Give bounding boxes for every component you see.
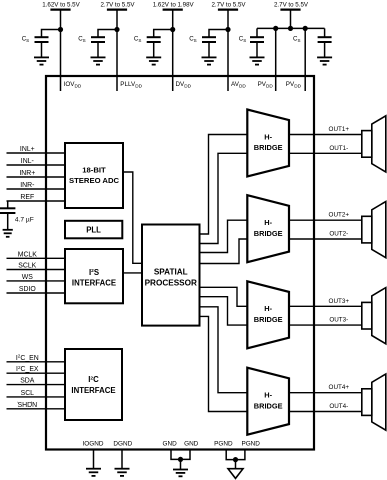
- svg-text:AVDD: AVDD: [231, 81, 246, 89]
- block: PLL: [65, 221, 122, 239]
- wire SCLK input: [7, 269, 66, 271]
- wire I2C_EN input: [7, 361, 66, 363]
- svg-text:GND: GND: [184, 441, 199, 448]
- svg-text:SHDN: SHDN: [18, 402, 38, 409]
- node label SDA: [20, 378, 35, 385]
- junction node GND: [178, 457, 183, 462]
- wire OUT1+: [289, 134, 362, 136]
- junction node supply 1: [58, 27, 63, 32]
- CS value label 1: [22, 36, 29, 44]
- svg-text:GND: GND: [162, 441, 177, 448]
- supply terminal 2.7V to 5.5V (group 2): [100, 2, 135, 10]
- CS value label 4: [189, 36, 196, 44]
- svg-text:STEREO ADC: STEREO ADC: [69, 176, 120, 185]
- junction node supply 4: [225, 27, 230, 32]
- svg-text:CS: CS: [134, 36, 141, 44]
- speaker 4: [362, 374, 386, 430]
- wire OUT4+: [289, 392, 362, 394]
- node label SHDN: [18, 402, 38, 409]
- wire OUT1-: [289, 152, 362, 154]
- svg-text:OUT4+: OUT4+: [329, 384, 350, 391]
- speaker 3: [362, 288, 386, 344]
- wire SCL input: [7, 396, 66, 398]
- node label INL+: [20, 146, 35, 153]
- ground (PGND, power ground triangle): [228, 469, 243, 479]
- svg-text:OUT3+: OUT3+: [329, 298, 350, 305]
- svg-text:2.7V to 5.5V: 2.7V to 5.5V: [100, 2, 135, 9]
- svg-text:OUT2+: OUT2+: [329, 212, 350, 219]
- svg-text:PGND: PGND: [214, 441, 233, 448]
- wire spatial processor to H-bridge 4 IN+: [200, 307, 248, 393]
- svg-text:PLL: PLL: [86, 226, 101, 235]
- wire to bypass capacitor 2: [98, 30, 117, 38]
- pin label IOVDD: [64, 81, 82, 89]
- svg-text:SCLK: SCLK: [18, 263, 36, 270]
- CS value label (PVDD left): [239, 36, 246, 44]
- ground (REF cap): [3, 230, 13, 237]
- svg-text:INL+: INL+: [20, 146, 35, 153]
- wire OUT3+: [289, 305, 362, 307]
- pin label PVDD (2): [286, 81, 302, 89]
- svg-text:BRIDGE: BRIDGE: [254, 315, 283, 324]
- capacitor CS (PVDD bypass left): [250, 28, 264, 57]
- svg-text:SPATIAL: SPATIAL: [154, 268, 188, 277]
- svg-text:BRIDGE: BRIDGE: [254, 401, 283, 410]
- ground (bypass cap 4): [202, 57, 217, 64]
- junction node PGND: [233, 457, 238, 462]
- node label MCLK: [18, 251, 38, 258]
- svg-text:CS: CS: [293, 36, 300, 44]
- wire supply 2 vertical to pin PLLVDD: [116, 10, 118, 91]
- svg-text:INTERFACE: INTERFACE: [71, 386, 115, 395]
- wire OUT4-: [289, 411, 362, 413]
- svg-text:OUT1-: OUT1-: [329, 145, 348, 152]
- wire spatial processor to H-bridge 2 IN-: [200, 239, 248, 264]
- pin label PLLVDD: [120, 81, 142, 89]
- svg-text:PLLVDD: PLLVDD: [120, 81, 142, 89]
- value label 4.7 uF: [15, 216, 34, 223]
- wire SHDN input: [7, 408, 66, 410]
- pin label PVDD (1): [258, 81, 274, 89]
- net label OUT4+: [329, 384, 350, 391]
- net label OUT2+: [329, 212, 350, 219]
- node label INL-: [21, 158, 34, 165]
- svg-text:INR-: INR-: [20, 182, 34, 189]
- pin label DVDD: [176, 81, 192, 89]
- wire I2C_EX input: [7, 372, 66, 374]
- svg-text:INL-: INL-: [21, 158, 34, 165]
- ground (bypass cap 3): [146, 57, 161, 64]
- ground (bypass cap 2): [91, 57, 106, 64]
- amplifier block H-BRIDGE 4: [247, 368, 289, 435]
- svg-text:DGND: DGND: [113, 441, 132, 448]
- svg-text:I2C_EX: I2C_EX: [16, 365, 39, 373]
- wire REF input: [7, 200, 66, 202]
- ground (DGND): [115, 469, 130, 476]
- wire INR+ input: [7, 176, 66, 178]
- supply terminal 2.7V to 5.5V (PVDD group): [274, 2, 309, 10]
- svg-text:I2C_EN: I2C_EN: [16, 354, 39, 362]
- node label REF: [20, 194, 34, 201]
- supply terminal 1.62V to 5.5V (group 1): [42, 2, 80, 10]
- CS value label 3: [134, 36, 141, 44]
- svg-text:DVDD: DVDD: [176, 81, 192, 89]
- capacitor CS (bypass 1): [35, 37, 49, 57]
- wire OUT3-: [289, 324, 362, 326]
- net label OUT2-: [329, 231, 348, 238]
- amplifier block H-BRIDGE 3: [247, 281, 289, 348]
- svg-text:CS: CS: [239, 36, 246, 44]
- svg-text:H-: H-: [264, 132, 272, 141]
- block: I2C INTERFACE: [65, 349, 122, 420]
- block: I2S INTERFACE: [65, 249, 123, 303]
- wire PVDD supply vertical: [290, 10, 292, 29]
- svg-text:PVDD: PVDD: [258, 81, 274, 89]
- wire to bypass capacitor 3: [154, 30, 173, 38]
- svg-text:SDIO: SDIO: [19, 286, 36, 293]
- supply terminal 1.62V to 1.98V (group 3): [153, 2, 195, 10]
- svg-text:CS: CS: [78, 36, 85, 44]
- wire spatial processor to H-bridge 1 IN-: [200, 153, 248, 243]
- capacitor CS (bypass 3): [147, 37, 161, 57]
- pin label AVDD: [231, 81, 246, 89]
- svg-text:WS: WS: [22, 274, 34, 281]
- wire PVDD pin 2: [304, 28, 306, 91]
- node label WS: [22, 274, 34, 281]
- pin DGND: [113, 441, 132, 469]
- wire ADC output to spatial processor: [123, 172, 142, 263]
- wire INL- input: [7, 164, 66, 166]
- svg-text:1.62V to 1.98V: 1.62V to 1.98V: [153, 2, 195, 9]
- node label INR+: [19, 170, 35, 177]
- pin GND pair: [162, 441, 198, 470]
- svg-text:CS: CS: [22, 36, 29, 44]
- amplifier block H-BRIDGE 1: [247, 110, 289, 177]
- svg-text:BRIDGE: BRIDGE: [254, 143, 283, 152]
- svg-text:I2C: I2C: [88, 375, 99, 384]
- junction node PVDD pin 1: [273, 26, 278, 31]
- svg-text:18-BIT: 18-BIT: [82, 166, 106, 175]
- svg-text:OUT1+: OUT1+: [329, 126, 350, 133]
- wire SDIO input: [7, 292, 66, 294]
- wire SDA input: [7, 384, 66, 386]
- svg-text:IOGND: IOGND: [83, 441, 104, 448]
- wire spatial processor to H-bridge 3 IN-: [200, 297, 248, 325]
- svg-text:1.62V to 5.5V: 1.62V to 5.5V: [42, 2, 80, 9]
- supply terminal 2.7V to 5.5V (group 4): [211, 2, 246, 10]
- svg-text:H-: H-: [264, 391, 272, 400]
- wire PVDD pin 1: [275, 28, 277, 91]
- capacitor CS (bypass 2): [91, 37, 105, 57]
- svg-text:IOVDD: IOVDD: [64, 81, 82, 89]
- junction node supply 3: [170, 27, 175, 32]
- wire I2S interface to spatial processor: [123, 272, 142, 274]
- svg-text:PROCESSOR: PROCESSOR: [145, 279, 197, 288]
- block: SPATIAL PROCESSOR: [142, 225, 200, 326]
- svg-text:2.7V to 5.5V: 2.7V to 5.5V: [274, 2, 309, 9]
- capacitor CS (PVDD bypass right): [318, 28, 332, 57]
- wire spatial processor to H-bridge 4 IN-: [200, 316, 248, 411]
- wire to bypass capacitor 1: [42, 30, 61, 38]
- wire spatial processor to H-bridge 3 IN+: [200, 287, 248, 306]
- junction node PVDD bus (terminal): [288, 26, 293, 31]
- node label SCLK: [18, 263, 36, 270]
- CS value label (PVDD right): [293, 36, 300, 44]
- wire OUT2+: [289, 219, 362, 221]
- node label I2C_EN: [16, 354, 39, 362]
- net label OUT1+: [329, 126, 350, 133]
- amplifier block H-BRIDGE 2: [247, 195, 289, 262]
- svg-text:MCLK: MCLK: [18, 251, 38, 258]
- svg-text:PVDD: PVDD: [286, 81, 302, 89]
- ground (bypass cap 1): [34, 57, 49, 64]
- svg-text:4.7 µF: 4.7 µF: [15, 216, 34, 223]
- svg-text:PGND: PGND: [241, 441, 260, 448]
- ground (IOGND): [86, 469, 101, 476]
- junction node PVDD pin 2: [303, 26, 308, 31]
- net label OUT3+: [329, 298, 350, 305]
- wire MCLK input: [7, 257, 66, 259]
- pin PGND pair: [214, 441, 260, 469]
- svg-text:REF: REF: [20, 194, 34, 201]
- ground (GND pins): [173, 470, 188, 477]
- svg-text:BRIDGE: BRIDGE: [254, 229, 283, 238]
- wire INR- input: [7, 188, 66, 190]
- svg-text:CS: CS: [189, 36, 196, 44]
- svg-text:I2S: I2S: [89, 268, 99, 277]
- block: 18-BIT STEREO ADC: [65, 143, 123, 208]
- svg-text:OUT2-: OUT2-: [329, 231, 348, 238]
- wire supply 3 vertical to pin DVDD: [172, 10, 174, 91]
- svg-text:SCL: SCL: [21, 390, 35, 397]
- net label OUT1-: [329, 145, 348, 152]
- svg-text:H-: H-: [264, 304, 272, 313]
- junction node supply 2: [114, 27, 119, 32]
- capacitor CS (bypass 4): [202, 37, 216, 57]
- speaker 1: [362, 116, 386, 172]
- node label SCL: [21, 390, 35, 397]
- pin IOGND: [83, 441, 104, 469]
- wire INL+ input: [7, 152, 66, 154]
- ground (PVDD bypass left): [250, 57, 265, 64]
- speaker 2: [362, 202, 386, 258]
- svg-text:H-: H-: [264, 218, 272, 227]
- wire supply 1 vertical to pin IOVDD: [60, 10, 62, 91]
- wire spatial processor to H-bridge 1 IN+: [200, 135, 248, 235]
- node label SDIO: [19, 286, 36, 293]
- svg-text:2.7V to 5.5V: 2.7V to 5.5V: [211, 2, 246, 9]
- wire OUT2-: [289, 238, 362, 240]
- main IC block outline: [46, 76, 314, 450]
- wire PVDD bus: [257, 27, 325, 29]
- svg-text:OUT4-: OUT4-: [329, 403, 348, 410]
- ground (PVDD bypass right): [317, 57, 332, 64]
- wire to bypass capacitor 4: [209, 30, 228, 38]
- CS value label 2: [78, 36, 85, 44]
- wire WS input: [7, 280, 66, 282]
- net label OUT3-: [329, 317, 348, 324]
- node label I2C_EX: [16, 365, 39, 373]
- svg-text:INTERFACE: INTERFACE: [72, 279, 116, 288]
- wire spatial processor to H-bridge 2 IN+: [200, 220, 248, 252]
- svg-text:OUT3-: OUT3-: [329, 317, 348, 324]
- wire supply 4 vertical to pin AVDD: [227, 10, 229, 91]
- svg-text:SDA: SDA: [20, 378, 35, 385]
- svg-text:INR+: INR+: [19, 170, 35, 177]
- net label OUT4-: [329, 403, 348, 410]
- node label INR-: [20, 182, 34, 189]
- capacitor 4.7uF on REF: [0, 201, 15, 230]
